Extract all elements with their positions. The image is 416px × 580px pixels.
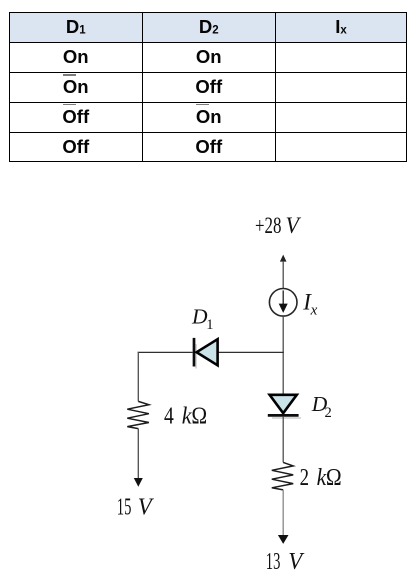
svg-text:V: V: [138, 495, 154, 521]
truth table: [9, 12, 407, 162]
wire from resistor R1 to 15V arrow: [137, 429, 139, 479]
svg-text:2: 2: [325, 405, 332, 421]
wire node A horizontal right segment: [219, 351, 284, 353]
diode D1 triangle: [197, 339, 218, 365]
wire from resistor R2 to 13V arrow: [282, 490, 284, 535]
current source Ix circle: [269, 289, 297, 317]
svg-text:V: V: [286, 213, 302, 238]
diode D2 cathode bar shadow: [272, 417, 301, 419]
svg-text:13: 13: [266, 549, 281, 575]
arrowhead to 15V supply: [134, 478, 143, 487]
diode D2 triangle: [270, 395, 297, 413]
label D1: [191, 305, 213, 334]
wire from +28V arrow to current source: [282, 261, 284, 289]
arrowhead to +28V supply: [280, 255, 287, 262]
svg-text:Ω: Ω: [191, 403, 207, 429]
diode D1 cathode bar shadow: [195, 344, 197, 369]
svg-text:V: V: [288, 549, 304, 575]
node +28V label: [255, 213, 302, 238]
wire from diode D2 to resistor R2: [282, 417, 284, 463]
wire from node A corner down to resistor R1: [137, 352, 139, 402]
svg-text:+28: +28: [255, 213, 282, 238]
svg-text:Ω: Ω: [326, 465, 342, 491]
diode D1 cathode bar: [193, 338, 196, 367]
label Ix: [302, 289, 317, 318]
current source internal arrow: [279, 290, 288, 313]
node 13V label: [266, 549, 305, 575]
svg-text:2: 2: [300, 465, 309, 491]
svg-text:1: 1: [206, 317, 213, 333]
arrowhead to 13V supply: [278, 535, 289, 544]
svg-text:15: 15: [117, 495, 132, 521]
label D2: [311, 392, 332, 421]
svg-text:x: x: [310, 303, 318, 319]
svg-text:4: 4: [164, 403, 174, 429]
label 2 kOhm: [300, 465, 342, 491]
node 15V label: [117, 495, 154, 521]
resistor R1 4k zigzag: [127, 401, 149, 428]
svg-text:k: k: [182, 403, 192, 429]
resistor R2 2k zigzag: [272, 462, 293, 490]
label 4 kOhm: [164, 403, 207, 429]
wire from current source to node A and to diode D2: [282, 316, 284, 394]
wire node A horizontal left segment: [138, 351, 193, 353]
diode D2 cathode bar: [268, 414, 299, 417]
